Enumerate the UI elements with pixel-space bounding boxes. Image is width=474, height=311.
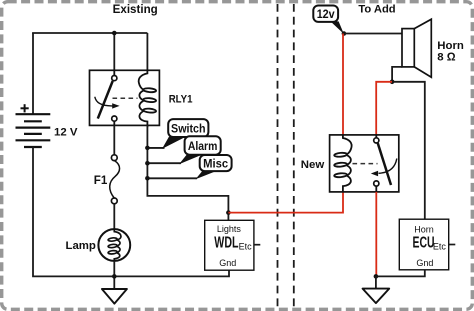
svg-text:Gnd: Gnd (219, 258, 236, 268)
lamp (98, 229, 130, 261)
callout pointer to Switch (162, 137, 186, 149)
svg-text:Gnd: Gnd (416, 258, 433, 268)
node: horn junction (390, 80, 395, 85)
wire: ECU ground to rail (376, 270, 425, 277)
wire: fuse to lamp (113, 204, 115, 230)
wire: horn to junction step (392, 67, 402, 82)
svg-text:RLY1: RLY1 (169, 94, 193, 106)
relay New motion arrow (371, 159, 397, 177)
relay RLY1 motion arrow (95, 97, 120, 109)
wire: alarm tap (147, 162, 181, 164)
horn speaker 8 ohm (402, 19, 431, 77)
svg-text:Lights: Lights (217, 224, 242, 234)
svg-text:Misc: Misc (203, 156, 228, 170)
callout pointer to Alarm (179, 154, 203, 164)
svg-text:New: New (301, 159, 325, 171)
svg-text:To Add: To Add (358, 3, 395, 15)
relay RLY1 coil (139, 70, 157, 127)
wire (red): horn junction to new relay switch (376, 82, 392, 135)
node: misc tap junction (145, 176, 150, 181)
wire: rail drop to relay coil (146, 33, 148, 71)
wire: horn junction to ECU (392, 82, 425, 219)
wire: switch tap (147, 147, 164, 149)
wire: top rail (32, 32, 147, 34)
wire: misc tap (147, 177, 197, 179)
svg-text:Alarm: Alarm (188, 139, 218, 153)
wire: rail drop to relay switch (113, 33, 115, 71)
wire (red): 12v junction to new relay coil top (342, 34, 344, 135)
node: 12v junction (342, 31, 347, 36)
node: lamp-ground junction (112, 274, 117, 279)
existing section border (277, 4, 279, 307)
wire (red): new relay switch to ground rail (375, 192, 377, 277)
wire (red): WDL junction to new relay coil (228, 192, 343, 213)
battery 12 V (16, 114, 51, 147)
label box Misc (200, 155, 232, 171)
wire: lamp to bottom rail (113, 261, 115, 289)
relay New switch contact (374, 135, 391, 192)
node: alarm tap junction (145, 161, 150, 166)
svg-text:Etc: Etc (239, 241, 253, 251)
svg-text:Switch: Switch (171, 121, 206, 135)
ground (existing) (102, 289, 127, 304)
relay RLY1 switch contact (98, 70, 117, 125)
wire: junction to ground (375, 276, 377, 288)
svg-text:Horn: Horn (437, 40, 464, 52)
wire: 12v junction to horn (344, 33, 402, 35)
node: right ground junction (374, 274, 379, 279)
callout pointer to Misc (196, 171, 218, 180)
callout pointer from 12v (331, 21, 344, 34)
svg-text:8 Ω: 8 Ω (437, 52, 455, 64)
to-add section border (293, 4, 295, 307)
label box Alarm (185, 136, 221, 154)
label box 12v (313, 6, 338, 22)
svg-text:Horn: Horn (414, 225, 434, 235)
relay New actuation dashed link (353, 163, 378, 165)
wire: battery negative / bottom rail (33, 147, 229, 276)
module WDL box (205, 220, 254, 270)
svg-text:ECU: ECU (413, 235, 435, 252)
relay New box (330, 135, 399, 192)
module ECU box (399, 219, 448, 270)
svg-text:12v: 12v (317, 7, 335, 21)
wire: battery positive to top rail (32, 33, 34, 114)
node: WDL feed junction (226, 210, 231, 215)
svg-text:Lamp: Lamp (66, 240, 96, 252)
relay RLY1 box (90, 70, 160, 125)
svg-text:Etc: Etc (433, 241, 447, 251)
WDL Etc stub (254, 244, 260, 246)
svg-text:12 V: 12 V (54, 127, 78, 139)
svg-text:Existing: Existing (113, 3, 158, 16)
ground (to add) (363, 289, 390, 304)
fuse F1 (110, 155, 120, 204)
svg-text:F1: F1 (94, 174, 108, 187)
ECU Etc stub (449, 244, 456, 246)
wire: coil to accessories bus (147, 125, 228, 220)
relay New coil (334, 135, 352, 192)
label box Switch (168, 119, 208, 137)
svg-text:WDL: WDL (214, 235, 238, 252)
battery plus sign (21, 104, 29, 112)
relay RLY1 actuation dashed link (113, 97, 138, 99)
wire: relay switch to fuse F1 (113, 125, 115, 154)
node: rail junction (112, 31, 117, 36)
node: switch tap junction (145, 146, 150, 151)
